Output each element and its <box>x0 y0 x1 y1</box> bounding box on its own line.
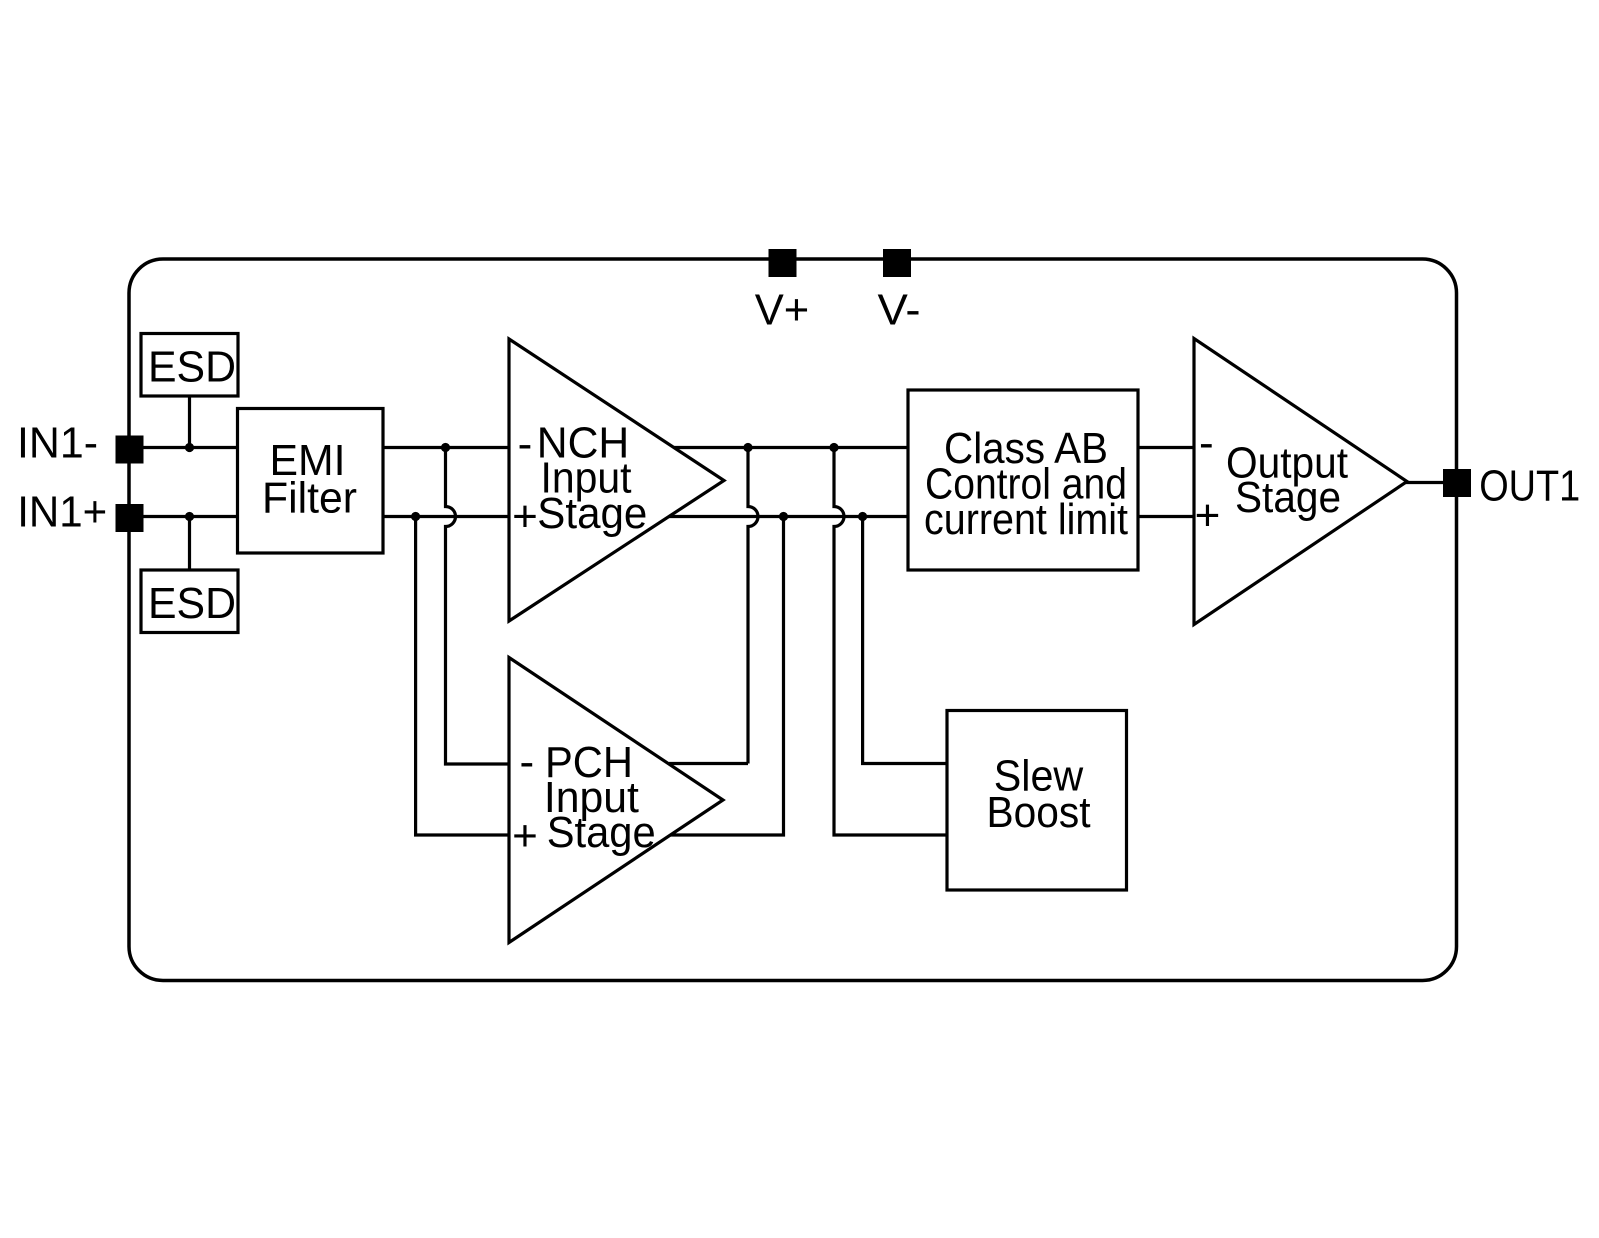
NCH input stage triangle U1 <box>509 339 724 621</box>
slew boost box <box>947 711 1127 891</box>
wire IN1+ net to ESD bottom <box>188 517 191 571</box>
wire NCH output bus top <box>674 446 908 449</box>
PCH input stage triangle U2 <box>509 658 723 943</box>
junction top bus / PCH upper output <box>743 443 752 452</box>
pin IN1- <box>116 436 144 464</box>
chip outline <box>129 259 1457 981</box>
wire PCH upper output up to top bus (hop over bottom bus) <box>669 448 758 764</box>
output stage triangle U3 <box>1194 339 1407 625</box>
wire output stage apex to OUT1 pin <box>1405 481 1443 484</box>
svg-text:+: + <box>512 492 538 541</box>
junction top bus / slew boost tap <box>829 443 838 452</box>
wire EMI filter to NCH inverting input <box>383 446 509 449</box>
svg-text:V+: V+ <box>755 286 810 335</box>
svg-text:-: - <box>1199 419 1214 468</box>
svg-text:IN1-: IN1- <box>17 419 98 468</box>
junction IN1+ / ESD bottom <box>185 512 194 521</box>
EMI filter box <box>238 409 384 554</box>
wire PCH lower output up to bottom bus <box>670 517 784 836</box>
wire class AB to output stage inverting <box>1138 446 1194 449</box>
svg-text:-: - <box>518 420 533 469</box>
wire node INP down to PCH noninverting input <box>416 517 509 836</box>
junction bottom bus / PCH lower output <box>779 512 788 521</box>
wire class AB to output stage noninverting <box>1138 515 1194 518</box>
svg-text:Boost: Boost <box>987 788 1091 837</box>
pin IN1+ <box>116 504 144 532</box>
svg-text:current limit: current limit <box>924 495 1128 544</box>
svg-text:-: - <box>519 738 534 787</box>
svg-text:ESD: ESD <box>148 343 236 392</box>
wire top bus down to slew boost lower input (hop over bottom bus) <box>834 448 947 836</box>
svg-text:Stage: Stage <box>1235 473 1341 522</box>
ESD box bottom <box>141 570 238 633</box>
svg-text:OUT1: OUT1 <box>1479 462 1580 511</box>
pin OUT1 <box>1443 469 1471 497</box>
wire IN1+ pin to EMI filter <box>144 515 238 518</box>
junction bottom bus / slew boost tap <box>858 512 867 521</box>
wire NCH output bus bottom <box>669 515 908 518</box>
pin V- <box>883 249 911 277</box>
svg-text:+: + <box>1195 491 1221 540</box>
svg-text:Stage: Stage <box>537 489 647 538</box>
ESD box top <box>141 334 238 397</box>
junction node INP <box>411 512 420 521</box>
junction node INN <box>441 443 450 452</box>
wire IN1- pin to EMI filter <box>144 446 238 449</box>
wire ESD top to IN1- net <box>188 396 191 448</box>
class AB control box <box>908 390 1138 570</box>
wire bottom bus down to slew boost upper input <box>863 517 947 764</box>
wire EMI filter to NCH noninverting input <box>383 515 509 518</box>
svg-text:ESD: ESD <box>148 579 236 628</box>
pin V+ <box>769 249 797 277</box>
svg-text:V-: V- <box>878 286 921 335</box>
svg-text:IN1+: IN1+ <box>17 488 107 537</box>
wire node INN down to PCH inverting input (hop over IN1+ line) <box>446 448 510 765</box>
junction IN1- / ESD top <box>185 443 194 452</box>
svg-text:Stage: Stage <box>547 808 656 857</box>
svg-text:Filter: Filter <box>262 474 357 523</box>
svg-text:+: + <box>512 812 538 861</box>
